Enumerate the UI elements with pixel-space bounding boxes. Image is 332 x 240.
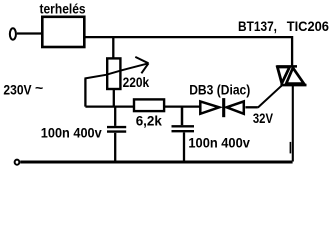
svg-text:TIC206: TIC206 [287, 18, 329, 34]
svg-text:6,2k: 6,2k [136, 113, 162, 129]
svg-text:100n 400v: 100n 400v [41, 124, 102, 140]
svg-text:32V: 32V [253, 110, 274, 126]
svg-text:100n 400v: 100n 400v [188, 134, 250, 150]
svg-text:BT137,: BT137, [238, 18, 277, 34]
svg-text:DB3 (Diac): DB3 (Diac) [189, 81, 250, 97]
svg-text:terhelés: terhelés [40, 1, 86, 17]
svg-text:~: ~ [35, 80, 43, 96]
svg-text:220k: 220k [123, 74, 150, 90]
svg-text:230V: 230V [3, 82, 32, 98]
